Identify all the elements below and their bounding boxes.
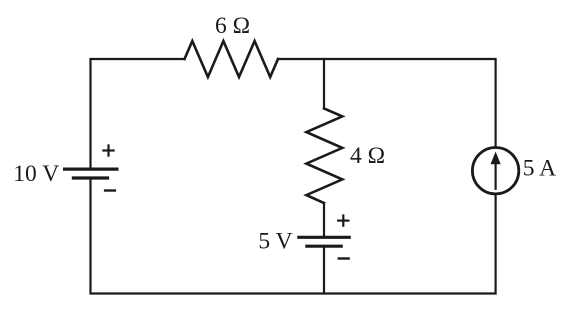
battery V2 5V long plate [297, 236, 351, 239]
wire top-left horizontal [91, 59, 185, 169]
svg-text:6 Ω: 6 Ω [215, 13, 250, 39]
battery V1 10V long plate [63, 168, 119, 171]
wire left lower [91, 178, 496, 294]
wire middle branch upper [323, 59, 325, 109]
wire middle below battery [323, 248, 325, 294]
svg-text:4 Ω: 4 Ω [350, 143, 385, 169]
current source I1 circle [472, 148, 518, 194]
resistor R1 6 ohm [185, 41, 279, 77]
svg-text:5 A: 5 A [523, 155, 556, 181]
current source I1 arrow shaft [495, 163, 497, 189]
battery V2 5V short plate [305, 245, 343, 248]
minus sign of V1 [104, 189, 116, 191]
battery V1 10V short plate [72, 176, 109, 179]
wire top-right horizontal [278, 59, 496, 147]
svg-text:10 V: 10 V [13, 161, 59, 187]
svg-text:5 V: 5 V [258, 229, 292, 255]
plus sign of V2 [337, 214, 349, 226]
minus sign of V2 [338, 257, 350, 259]
wire middle branch lower [323, 203, 325, 236]
current source I1 arrowhead [491, 152, 501, 165]
resistor R2 4 ohm [306, 109, 342, 204]
plus sign of V1 [102, 144, 114, 156]
